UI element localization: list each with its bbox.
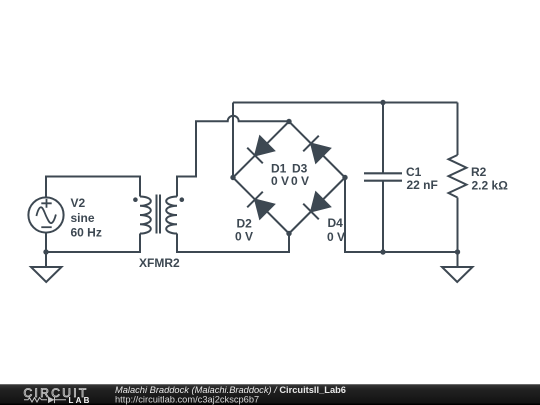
svg-text:0 V: 0 V [235,230,253,244]
transformer XFMR2 secondary coil [166,197,177,234]
svg-text:V2: V2 [71,196,86,210]
diode D2 triangle [255,200,274,219]
svg-text:2.2 kΩ: 2.2 kΩ [472,178,509,192]
wire C1 bottom [382,181,384,252]
ground symbol under R2 [442,267,473,282]
CircuitLab logo waveform resistor zigzag [24,398,47,402]
junction dot bridge left node [230,175,235,180]
diode D3 triangle [311,144,330,163]
svg-text:http://circuitlab.com/c3aj2cks: http://circuitlab.com/c3aj2ckscp6b7 [115,395,259,405]
transformer XFMR2 secondary phase dot [180,197,185,202]
svg-text:0 V: 0 V [271,174,289,188]
voltage source V2 sine glyph [36,207,56,223]
transformer XFMR2 primary coil [140,197,151,234]
wire R2 bottom [457,198,459,253]
wire V2 ground stub [45,252,47,267]
diode D4 triangle [311,192,330,211]
svg-text:C1: C1 [406,165,422,179]
junction dot bottom rail at R2 [455,249,460,254]
wire XFMR2 secondary bottom to bridge bottom node [177,234,289,253]
diode D1 triangle [255,136,274,155]
svg-text:D4: D4 [328,216,344,230]
diode D2 cathode bar [247,192,263,208]
diode bridge edge T-L [233,122,289,178]
svg-text:D2: D2 [237,216,253,230]
CircuitLab logo waveform diode [48,397,55,404]
junction dot bridge bottom node [286,231,291,236]
wire R2 top [457,103,459,156]
transformer XFMR2 primary phase dot [133,197,138,202]
junction dot V2 bottom [43,249,48,254]
voltage source V2 plus sign [41,199,51,208]
diode bridge edge L-B [233,178,289,234]
voltage source V2 circle [28,197,63,232]
wire bridge left node to top rail [232,103,234,178]
diode D1 cathode bar [247,148,263,164]
wire V2 top to XFMR2 primary top [46,177,140,197]
junction dot bridge top node [286,119,291,124]
svg-text:60 Hz: 60 Hz [71,226,102,240]
diode bridge edge R-B [289,178,345,234]
junction dot top rail at C1 [380,100,385,105]
wire bridge right node to bottom rail [345,178,458,253]
wire top rail [233,102,458,104]
svg-text:22 nF: 22 nF [407,178,438,192]
diode bridge edge T-R [289,122,345,178]
junction dot bridge right node [342,175,347,180]
footer bar [0,384,540,405]
voltage source V2 minus sign [41,226,51,228]
wire XFMR2 secondary top to bridge top node with hop [177,116,289,197]
resistor R2 zigzag [449,155,467,198]
svg-text:0 V: 0 V [327,230,345,244]
diode D3 cathode bar [303,136,319,152]
ground symbol under V2 [31,267,62,282]
transformer XFMR2 core [157,195,161,234]
wire V2 bottom stub [45,233,47,253]
CircuitLab logo waveform diode bar [55,397,67,404]
junction dot bottom rail at C1 [380,249,385,254]
wire XFMR2 primary bottom to V2 bottom [46,234,140,253]
svg-text:sine: sine [71,211,95,225]
capacitor C1 plates [364,173,402,180]
svg-text:R2: R2 [471,165,487,179]
wire C1 top [382,103,384,174]
svg-text:XFMR2: XFMR2 [139,256,180,270]
wire R2 ground stub [457,252,459,267]
svg-text:LAB: LAB [69,396,92,405]
svg-text:0 V: 0 V [291,174,309,188]
diode D4 cathode bar [303,204,319,220]
